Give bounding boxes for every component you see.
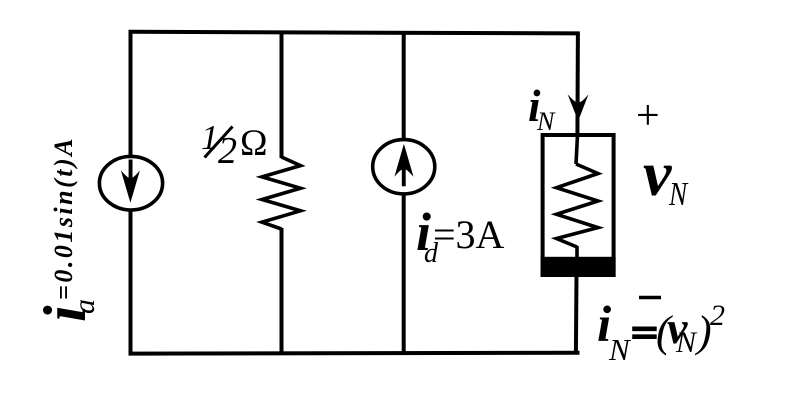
label i_N (current into N) : i <box>528 84 541 129</box>
equals sign of formula i_N=(v_N)^2 <box>632 329 657 337</box>
label i_N = (v_N)^2 : close paren <box>697 310 712 354</box>
label i_d = 3A : subscript d <box>424 240 438 268</box>
label i_d = 3A : i <box>416 205 431 259</box>
wire right branch top <box>575 33 580 137</box>
arrow i_N (down, on right branch wire) <box>568 94 589 121</box>
plus sign (v_N polarity) <box>636 95 660 137</box>
wire left branch <box>129 32 133 354</box>
wire right branch bottom <box>574 275 579 354</box>
label i_N = (v_N)^2 : subscript N <box>609 334 630 365</box>
nonlinear element N: box <box>543 135 614 275</box>
current source id (circle) <box>373 140 435 194</box>
slash of fraction 1/2 <box>205 127 233 158</box>
label i_a: subscript a (rotated) <box>70 299 100 314</box>
wire top <box>129 32 580 34</box>
resistor zigzag inside N <box>557 164 599 247</box>
current source ia (circle) <box>99 156 162 210</box>
label i_a: =0.01sin(t)A (rotated) <box>51 136 77 300</box>
minus sign (v_N polarity) <box>639 296 661 299</box>
label i_N (current into N) : subscript N <box>537 109 554 135</box>
wire current source id branch <box>402 32 406 354</box>
wire resistor branch top <box>280 32 284 158</box>
resistor R (1/2 ohm) <box>262 157 301 229</box>
label i_N = (v_N)^2 : subscript N <box>676 328 696 358</box>
wire resistor branch bottom <box>280 228 284 354</box>
wire lead inside N <box>576 135 578 164</box>
value label ohm symbol <box>240 125 268 162</box>
label i_N = (v_N)^2 : exponent 2 <box>710 301 725 331</box>
label i_a: big i (rotated) <box>35 305 95 322</box>
value label numeral 1 of 1/2 <box>201 120 219 155</box>
label i_N = (v_N)^2 : i <box>597 300 611 351</box>
arrow of source ia (down) <box>121 160 140 203</box>
arrow of source id (up) <box>394 144 413 186</box>
value label numeral 2 of 1/2 <box>218 132 237 170</box>
label v_N : v <box>643 142 671 206</box>
label i_d = 3A : =3A <box>433 215 504 255</box>
wire lead bottom inside N <box>575 246 579 258</box>
label v_N : subscript N <box>669 178 687 212</box>
label i_N = (v_N)^2 : open paren <box>656 310 671 354</box>
bottom terminal bar of N <box>541 257 616 277</box>
label i_N = (v_N)^2 : v <box>667 305 687 351</box>
wire bottom <box>129 351 580 356</box>
